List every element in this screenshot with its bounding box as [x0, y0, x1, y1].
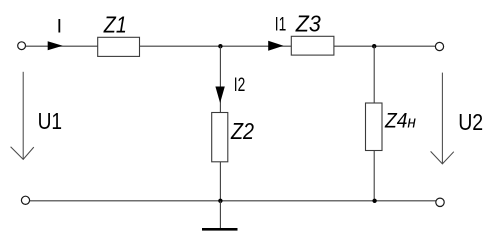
wire: top rail, Z3 to output terminal [334, 45, 436, 47]
svg-text:I: I [57, 16, 62, 38]
node: output terminal (port 2, top right) [435, 42, 443, 50]
svg-text:Z2: Z2 [230, 118, 254, 144]
junction node A (top of Z2) [218, 44, 222, 48]
current arrow I [48, 41, 63, 50]
resistor Z3 [291, 36, 334, 55]
svg-text:Z3: Z3 [295, 10, 321, 36]
node: output return terminal (port 2', bottom right) [436, 198, 444, 206]
resistor Z2 [212, 113, 228, 162]
junction node C (bottom of Z2) [218, 199, 222, 203]
current arrow I2 [215, 87, 224, 104]
junction node D (bottom of Z4) [372, 199, 376, 203]
node: input terminal (port 1, top left) [18, 42, 26, 50]
svg-text:I2: I2 [234, 75, 246, 96]
wire: node B down to Z4 [373, 46, 375, 103]
svg-text:Z1: Z1 [103, 12, 127, 38]
wire: top rail, Z1 to Z3 [140, 45, 292, 47]
wire: bottom rail [30, 200, 436, 202]
resistor Z4н (load) [366, 103, 383, 151]
junction node B (top of Z4) [372, 44, 376, 48]
voltage arrow U2 [431, 73, 454, 164]
resistor Z1 [98, 37, 140, 56]
svg-text:I1: I1 [275, 15, 287, 36]
node: input return terminal (port 1', bottom left) [21, 196, 29, 204]
svg-text:U2: U2 [458, 109, 483, 135]
wire: Z2 down to bottom rail [219, 162, 221, 201]
wire: top rail, terminal to Z1 [26, 45, 98, 47]
current arrow I1 [268, 41, 283, 51]
wire: node A down to Z2 [219, 46, 221, 112]
svg-text:U1: U1 [38, 108, 63, 134]
wire: Z4 down to bottom rail [373, 151, 375, 201]
ground [202, 228, 238, 231]
voltage arrow U1 [11, 72, 34, 160]
wire: ground stub [219, 201, 221, 229]
svg-text:Z4н: Z4н [384, 109, 417, 132]
